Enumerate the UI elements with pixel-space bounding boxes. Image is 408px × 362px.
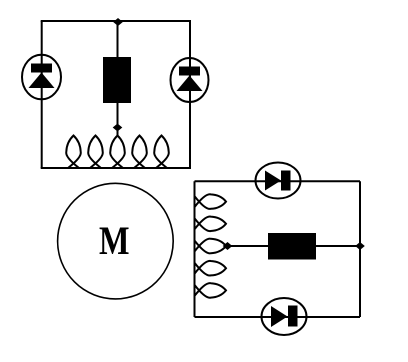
wire: circuit1 top — [41, 20, 191, 22]
L2 loop 4 — [195, 261, 227, 276]
L2 loop 3 — [195, 239, 227, 254]
node: junction dot top center — [113, 18, 123, 26]
diode V3 (top, in circle, pointing right) — [256, 163, 301, 199]
L1 loop 4 — [132, 136, 147, 169]
wire: circuit2 bottom — [195, 316, 361, 318]
motor M1 — [58, 183, 174, 299]
diode V1 (left, in circle, pointing up) — [22, 55, 61, 100]
node: junction dot above coil L1 — [113, 124, 123, 132]
L1 loop 3 — [110, 136, 125, 169]
L2 loop 2 — [195, 216, 227, 231]
wire: circuit1 right branch — [189, 21, 191, 168]
node: junction dot on right branch — [355, 242, 365, 250]
wire: circuit2 right branch — [359, 181, 361, 317]
wire: from R1 down to coil L1 — [117, 103, 119, 137]
inductor L1 (5 loops on bottom wire) — [66, 136, 169, 169]
L1 loop 5 — [154, 136, 169, 169]
wire: circuit2 middle (coil tap to right branch) — [224, 245, 360, 247]
wire: circuit2 top — [195, 180, 361, 182]
wire: circuit1 bottom — [41, 167, 191, 169]
wire: from top junction down to resistor R1 — [117, 21, 119, 57]
diode V2 (right, in circle, pointing up) — [171, 58, 209, 102]
wire: circuit1 left branch — [41, 21, 43, 168]
resistor R1 — [103, 57, 131, 103]
diode V4 (bottom, in circle, pointing right) — [262, 298, 307, 335]
L1 loop 2 — [88, 136, 103, 169]
resistor R2 — [268, 233, 316, 260]
inductor L2 (5 loops on left wire, pointing right) — [195, 194, 227, 297]
L1 loop 1 — [66, 136, 81, 169]
L2 loop 1 — [195, 194, 227, 209]
svg-text:M: M — [99, 218, 130, 263]
wire: circuit2 left branch — [194, 181, 196, 317]
node: junction dot at coil tap — [223, 242, 233, 250]
L2 loop 5 — [195, 283, 227, 298]
